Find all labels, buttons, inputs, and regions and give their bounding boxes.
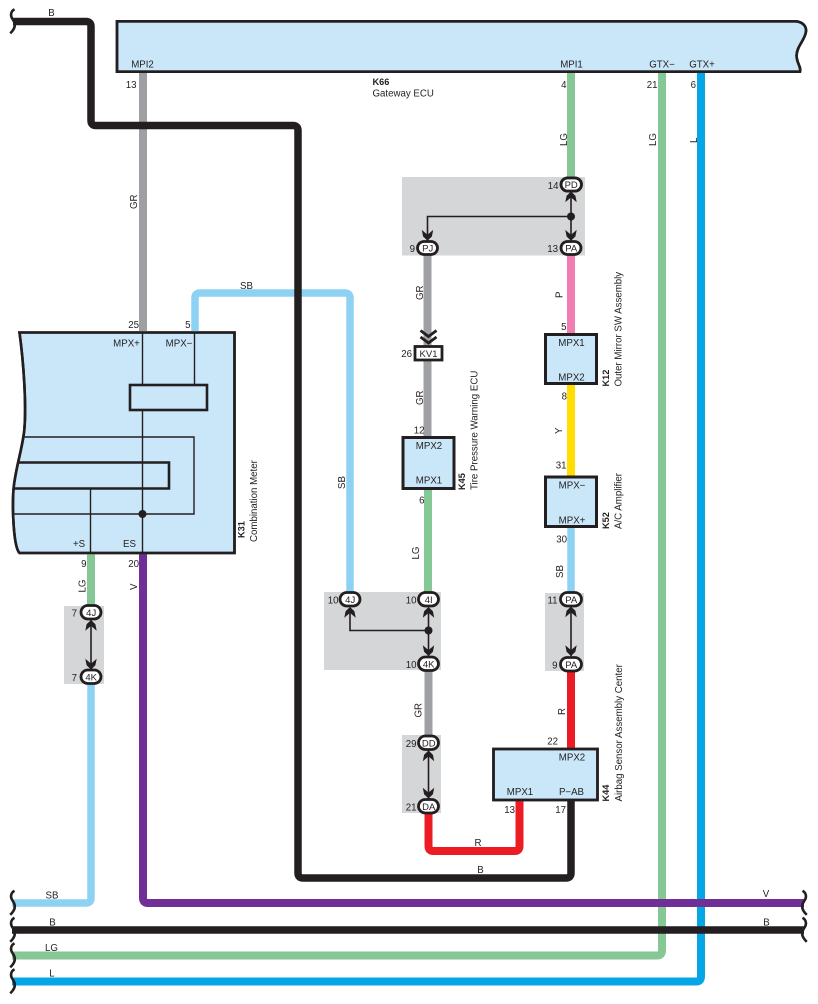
shield connector block PD/PJ/PA [402,177,585,256]
svg-text:B: B [49,918,55,929]
svg-text:Gateway ECU: Gateway ECU [373,89,434,100]
wire SB from joint 4K left to bottom left rail [12,683,91,903]
joint wiring DD-DA line [428,750,430,799]
arrowhead down into PA pin9 [565,645,576,656]
connector joint 4K left pin7 [81,670,101,684]
svg-text:P: P [555,292,566,298]
ECU K66 Gateway ECU box [117,21,806,71]
svg-text:GTX−: GTX− [649,60,675,71]
wire Y from K12 MPX2 pin8 to K52 MPX- pin31 [567,383,575,477]
svg-text:6: 6 [691,80,696,91]
K31 internal wire ES vertical [142,410,144,553]
arrowhead down into 4K [423,645,434,656]
break symbol wire LG bottom left [10,943,15,967]
svg-text:K44: K44 [601,784,611,802]
svg-text:MPI1: MPI1 [560,60,583,71]
svg-text:LG: LG [559,133,570,146]
svg-text:30: 30 [556,535,567,546]
wire GR from KV1 to K45 MPX2 pin12 [424,360,432,437]
wire GR from K66 MPI2 pin13 to K31 MPX+ pin25 [139,71,147,333]
svg-text:+S: +S [73,539,86,550]
wire SB from K31 MPX- pin5 up over to joint 4J [195,293,350,593]
amplifier K52 A/C Amplifier box [546,477,597,527]
connector joint PJ [418,242,438,255]
wire P from joint PA pin13 to K12 MPX1 pin5 [567,255,575,335]
shield connector block 4J/4I/4K middle [324,592,441,670]
wire LG from K66 MPI1 pin4 to joint PD [567,71,575,179]
joint wiring node to PJ and PA [428,217,572,242]
joint wiring PD block: line PD to node [570,191,572,217]
svg-text:10: 10 [406,596,417,607]
break symbol wire L bottom left [10,969,15,993]
joint wiring 4J-4K left block line [90,619,92,670]
svg-text:MPX1: MPX1 [507,787,533,798]
svg-text:13: 13 [547,244,558,255]
svg-text:P−AB: P−AB [559,787,584,798]
svg-text:10: 10 [406,660,417,671]
connector joint DA pin21 [419,800,439,814]
svg-text:21: 21 [406,803,417,814]
wire GR from joint 4K to joint DD pin29 [425,671,433,737]
joint wiring PA-PA line [570,606,572,656]
svg-text:22: 22 [547,737,558,748]
svg-text:L: L [689,137,700,143]
arrowhead down into DA [423,788,434,799]
connector joint PD [561,178,582,191]
svg-text:A/C Amplifier: A/C Amplifier [614,472,625,529]
shield connector block PA/PA [545,593,584,671]
connector joint PA pin13 [561,242,581,255]
arrowhead up into PD [565,192,576,203]
svg-text:MPX+: MPX+ [559,516,586,527]
wire LG from K66 GTX- pin21 to bottom rail [12,71,662,956]
wire V from K31 ES pin20 to bottom right rail [143,553,804,903]
arrowhead down into PA [565,230,576,241]
svg-text:R: R [475,838,482,849]
shield connector block DD/DA [402,735,441,813]
connector joint DD pin29 [419,736,439,750]
svg-text:5: 5 [561,322,566,333]
splice chevron above KV1 [421,331,437,344]
svg-text:GR: GR [129,194,140,209]
K45 box border overlay [403,438,454,489]
K66 box border overlay [117,21,806,71]
K44 box border overlay [494,749,598,800]
break symbol wire B bottom right [802,918,807,942]
wire SB from K52 MPX+ pin30 to joint PA pin11 [567,526,575,594]
svg-text:29: 29 [406,739,417,750]
svg-text:LG: LG [648,133,659,146]
svg-text:SB: SB [46,891,59,902]
svg-text:PA: PA [565,244,578,255]
svg-text:4J: 4J [345,595,355,606]
wire B ground path from top-left break to K44 P-AB pin17 [13,22,571,879]
svg-text:21: 21 [647,80,658,91]
break symbol wire SB bottom left [10,891,15,915]
svg-text:Tire Pressure Warning ECU: Tire Pressure Warning ECU [470,371,481,490]
arrowhead down into PJ [422,230,433,241]
K31 box border overlay [13,333,235,554]
K31 internal wire MPX+ upper segment [142,333,144,385]
component K31 Combination Meter box [13,333,235,554]
arrowhead up into 4J [344,607,355,618]
svg-text:26: 26 [401,349,412,360]
sensor K44 Airbag Sensor Assembly Center box [494,749,598,800]
connector joint 4J pin10 [340,593,360,607]
break symbol wire B top left [10,9,15,33]
svg-text:13: 13 [126,80,137,91]
svg-text:6: 6 [419,496,424,507]
svg-text:L: L [49,969,55,980]
connector joint PA pin11 [561,593,582,607]
switch K12 Outer Mirror SW Assembly box [546,335,597,384]
svg-text:B: B [48,8,54,19]
svg-text:DA: DA [422,802,436,813]
break symbol wire B bottom left [10,918,15,942]
K31 internal C-shape net [13,437,194,514]
svg-text:MPX1: MPX1 [416,476,442,487]
svg-text:GR: GR [415,390,426,405]
svg-text:MPX2: MPX2 [558,373,584,384]
break symbol wire V bottom right [802,891,807,915]
svg-text:K52: K52 [601,512,611,529]
svg-text:Combination Meter: Combination Meter [249,459,260,542]
wire L from K66 GTX+ pin6 to bottom rail [12,71,701,982]
svg-text:GR: GR [414,703,425,718]
svg-text:KV1: KV1 [420,349,438,360]
svg-text:5: 5 [185,320,190,331]
svg-text:MPX2: MPX2 [416,441,442,452]
svg-text:LG: LG [78,580,89,593]
svg-text:PD: PD [565,180,578,191]
svg-text:K66: K66 [373,77,390,87]
svg-text:9: 9 [410,244,415,255]
svg-text:7: 7 [72,673,77,684]
svg-text:20: 20 [128,559,139,570]
svg-text:GR: GR [415,285,426,300]
svg-text:Outer Mirror SW Assembly: Outer Mirror SW Assembly [614,272,625,387]
connector joint 4I pin10 [419,593,439,607]
K31 internal component box upper [130,385,207,410]
K12 box border overlay [546,335,597,384]
svg-text:8: 8 [562,392,567,403]
arrowhead up into 4J left [85,620,96,631]
svg-text:K45: K45 [457,473,467,490]
K31 internal component box lower (thick) [14,463,170,489]
svg-text:MPX−: MPX− [559,481,586,492]
K31 internal wire MPX- segment [194,333,196,385]
K31 internal wire +S vertical [90,489,92,554]
svg-text:4: 4 [561,80,567,91]
svg-text:4K: 4K [423,660,435,671]
K31 internal junction node [139,510,147,518]
connector joint 4J left pin7 [81,606,101,620]
arrowhead up into 4I [423,607,434,618]
connector joint 4K pin10 [419,657,439,671]
wire LG from K45 MPX1 pin6 to joint 4I [424,489,432,593]
connector joint PA pin9 [561,658,582,672]
svg-text:4J: 4J [86,608,96,619]
svg-text:SB: SB [240,281,253,292]
svg-text:PA: PA [565,660,578,671]
svg-text:9: 9 [552,661,557,672]
svg-text:R: R [557,708,568,715]
svg-text:V: V [763,889,770,900]
connector KV1 pin26 [415,347,442,361]
svg-text:PA: PA [565,595,578,606]
junction node in PD/PJ/PA block [567,213,575,221]
wire R from joint PA pin9 to K44 MPX2 pin22 [567,670,575,749]
svg-text:MPX2: MPX2 [559,753,585,764]
svg-text:7: 7 [72,609,77,620]
svg-text:Airbag Sensor Assembly Center: Airbag Sensor Assembly Center [614,663,625,801]
svg-text:4K: 4K [85,673,97,684]
svg-text:14: 14 [548,181,559,192]
svg-text:MPX−: MPX− [166,339,193,350]
arrowhead up into PA pin11 [565,607,576,618]
svg-text:Y: Y [554,427,565,434]
shield connector block 4J/4K left [64,606,104,684]
svg-text:SB: SB [337,476,348,489]
svg-text:V: V [129,583,140,590]
junction node 4I block [425,627,433,635]
svg-text:DD: DD [422,739,436,750]
svg-text:11: 11 [547,596,557,607]
svg-text:31: 31 [556,461,567,472]
wire GR from joint PJ pin9 to KV1 pin26 [424,255,432,346]
svg-text:MPI2: MPI2 [131,60,154,71]
svg-text:MPX+: MPX+ [113,339,140,350]
svg-text:GTX+: GTX+ [689,60,715,71]
svg-text:25: 25 [128,320,139,331]
arrowhead up into DD [423,751,434,762]
joint wiring 4J/4I to 4K lines [350,612,429,656]
svg-text:B: B [477,865,483,876]
svg-text:ES: ES [123,539,136,550]
wire LG from K31 +S pin9 to joint 4J left [87,553,95,606]
K52 box border overlay [546,477,597,527]
wire B bottom rail [12,926,804,934]
svg-text:9: 9 [81,559,86,570]
arrowhead down into 4K left [85,659,96,670]
svg-text:17: 17 [555,805,566,816]
wire R from joint DA pin21 to K44 MPX1 pin13 [429,800,520,851]
svg-text:12: 12 [414,426,425,437]
svg-text:K12: K12 [601,370,611,387]
svg-text:LG: LG [45,943,58,954]
svg-text:13: 13 [504,805,515,816]
svg-text:B: B [763,918,769,929]
svg-text:4I: 4I [425,595,433,606]
svg-text:PJ: PJ [422,244,433,255]
svg-text:LG: LG [411,547,422,560]
svg-text:MPX1: MPX1 [558,338,584,349]
svg-text:SB: SB [555,565,566,578]
ECU K45 Tire Pressure Warning ECU box [403,438,454,489]
svg-text:K31: K31 [237,521,247,538]
svg-text:10: 10 [328,596,339,607]
